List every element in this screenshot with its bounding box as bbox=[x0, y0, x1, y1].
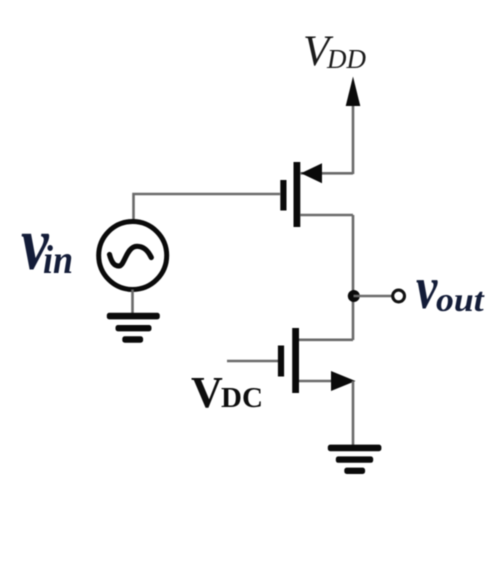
transistor M1 source arrow (points into channel) bbox=[301, 163, 322, 183]
svg-text:V: V bbox=[191, 368, 223, 417]
VDD arrowhead bbox=[346, 77, 361, 107]
node VDD label bbox=[303, 28, 366, 75]
transistor M2 (NMOS) gate bar bbox=[278, 346, 284, 377]
ground (under source V1) bbox=[107, 313, 160, 343]
wire VDD vertical bbox=[352, 103, 355, 174]
source V1 sine waveform bbox=[110, 246, 152, 266]
transistor M1 (PMOS) gate bar bbox=[280, 180, 286, 211]
output terminal open circle bbox=[393, 290, 405, 302]
node vin label bbox=[21, 202, 73, 286]
transistor M2 source lead wire bbox=[299, 380, 333, 383]
transistor M1 source lead wire bbox=[300, 172, 353, 175]
node output junction dot bbox=[348, 290, 360, 302]
wire from source top to PMOS gate bbox=[134, 194, 281, 220]
node vout label bbox=[416, 255, 485, 321]
transistor M2 (NMOS) channel bar bbox=[292, 328, 299, 393]
transistor M2 source arrow (points out of channel) bbox=[331, 371, 356, 391]
svg-text:DC: DC bbox=[221, 382, 263, 414]
svg-text:out: out bbox=[436, 281, 485, 319]
transistor M2 drain lead wire bbox=[299, 338, 353, 341]
svg-text:v: v bbox=[416, 255, 438, 321]
ground (bottom, under M2) bbox=[328, 445, 382, 474]
source V1 (sine source) circle bbox=[99, 222, 167, 290]
wire VDC to M2 gate bbox=[227, 360, 278, 363]
transistor M1 drain lead wire bbox=[300, 214, 353, 217]
wire M2 source to ground bbox=[352, 381, 355, 446]
wire to output terminal bbox=[354, 295, 392, 298]
wire M1 drain to M2 drain vertical bbox=[352, 215, 355, 340]
svg-text:DD: DD bbox=[326, 44, 366, 74]
transistor M1 (PMOS) channel bar bbox=[294, 162, 301, 227]
svg-text:in: in bbox=[43, 238, 73, 282]
node VDC label bbox=[191, 368, 263, 417]
wire source V1 to ground stub bbox=[131, 290, 134, 316]
